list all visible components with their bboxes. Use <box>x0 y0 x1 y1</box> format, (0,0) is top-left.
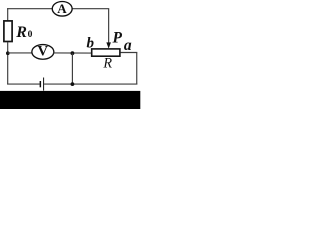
black bar bottom <box>0 91 140 109</box>
ammeter A <box>52 2 72 17</box>
wire branch vertical <box>71 53 73 84</box>
battery cell short plate <box>39 81 41 87</box>
node dot left <box>6 51 10 55</box>
battery cell long plate <box>43 78 45 91</box>
svg-text:R: R <box>102 56 112 72</box>
svg-text:V: V <box>38 44 49 60</box>
wire top-right horizontal from ammeter to corner <box>72 8 109 10</box>
wire left vertical lower <box>7 42 9 85</box>
wire middle to voltmeter <box>8 52 33 54</box>
svg-text:R: R <box>15 24 27 41</box>
svg-text:a: a <box>124 37 132 54</box>
wire bottom left <box>7 83 40 85</box>
wire left vertical upper <box>7 8 9 20</box>
wire voltmeter to node <box>53 52 91 54</box>
wire top-left horizontal <box>7 8 52 10</box>
wire bottom right <box>44 83 137 85</box>
wiper arrowhead P <box>106 42 111 48</box>
resistor R0 <box>4 21 12 42</box>
wire wiper vertical drop <box>108 9 110 44</box>
voltmeter V <box>32 45 54 60</box>
wire right vertical <box>136 53 138 85</box>
node dot bottom <box>71 82 75 86</box>
rheostat R <box>92 49 120 56</box>
svg-text:0: 0 <box>28 29 33 40</box>
wire rheostat right <box>121 52 138 54</box>
node dot middle <box>71 51 75 55</box>
svg-text:b: b <box>87 36 95 52</box>
svg-text:P: P <box>113 30 123 47</box>
svg-text:A: A <box>57 1 67 16</box>
